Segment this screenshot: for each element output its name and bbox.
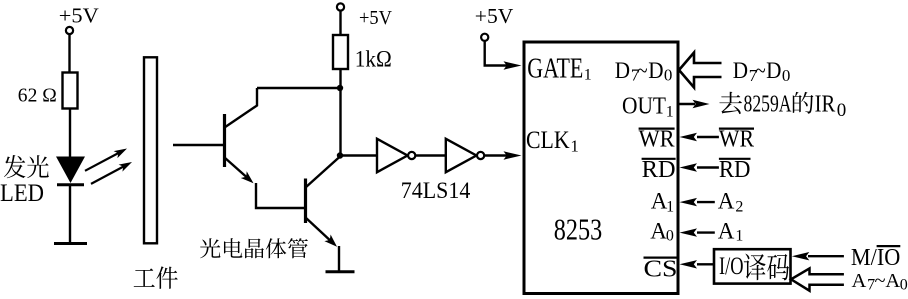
svg-text:CS: CS [644, 257, 678, 283]
svg-text:A: A [718, 189, 735, 214]
bus label A7~A0 [852, 270, 908, 293]
Q2 collector lead [306, 157, 341, 188]
wire OUT1 with arrow [679, 100, 710, 108]
inverter U1B bubble [477, 152, 484, 159]
svg-text:IR: IR [815, 91, 836, 117]
svg-text:2: 2 [735, 199, 743, 216]
ground bar (LED branch) [54, 242, 87, 245]
wire node to inverter U1A [340, 154, 377, 156]
svg-text:D: D [766, 58, 781, 83]
wire CS to decoder with arrow [680, 260, 715, 268]
ground bar (Q2 emitter) [326, 270, 355, 273]
signal label A2 [718, 189, 744, 216]
junction node (collector/inverter) [337, 152, 343, 158]
svg-text:D: D [648, 58, 663, 83]
svg-text:+5V: +5V [359, 7, 393, 29]
svg-text:WR: WR [719, 127, 754, 153]
power +5V label (1k branch) [359, 7, 393, 29]
Q1 collector lead [225, 88, 258, 128]
svg-text:1: 1 [666, 199, 674, 216]
pin label A1 (inside) [651, 189, 674, 216]
svg-text:A: A [885, 270, 900, 292]
pin label WR (inside, overline) [639, 127, 675, 153]
signal label RD (overline) [719, 157, 751, 183]
bus label D7~D0 (external) [733, 58, 791, 85]
svg-text:A: A [650, 219, 667, 244]
value label 62 ohm [18, 85, 57, 107]
inverter U1B triangle [446, 139, 477, 172]
svg-text:RD: RD [719, 157, 751, 183]
svg-text:WR: WR [639, 127, 675, 153]
svg-text:+5V: +5V [475, 4, 514, 28]
svg-text:A: A [718, 219, 735, 244]
wire U1A to U1B [415, 154, 445, 156]
wire A1-A2 with arrow [680, 198, 715, 206]
data bus block arrow into D7~D0 [679, 53, 722, 88]
pin label OUT1 [622, 94, 674, 121]
IC U1 8253 body [524, 42, 678, 294]
svg-text:1: 1 [570, 137, 579, 156]
+5V terminal circle (LED branch) [66, 27, 73, 34]
pin label A0 (inside) [650, 219, 674, 245]
label 工件 [134, 266, 178, 288]
svg-text:62 Ω: 62 Ω [18, 85, 57, 107]
phototransistor Q1 base bar [223, 114, 226, 167]
+5V terminal circle (GATE branch) [481, 34, 488, 41]
light emission arrow 1 [85, 149, 127, 171]
svg-text:OUT: OUT [622, 94, 666, 120]
wire M/IO with arrow [792, 252, 844, 260]
label 去8259A的IR0 [719, 91, 846, 121]
svg-text:D: D [615, 58, 630, 83]
resistor R1 62ohm body [63, 73, 78, 109]
svg-text:~: ~ [637, 58, 647, 83]
wire U1B to CLK1 with arrow [484, 151, 521, 159]
chip name 8253 [554, 213, 602, 247]
label I/O译码 [719, 253, 789, 281]
phototransistor Q1 base lead [173, 144, 225, 146]
wire A0-A1 with arrow [680, 228, 715, 236]
svg-text:CLK: CLK [526, 127, 570, 154]
+5V terminal circle (1k branch) [337, 3, 344, 10]
svg-text:8253: 8253 [554, 213, 602, 247]
pin label CLK1 [526, 127, 579, 156]
wire Q2 emitter to ground [338, 246, 340, 271]
svg-text:0: 0 [900, 276, 908, 293]
label 74LS14 [401, 178, 471, 203]
svg-text:LED: LED [0, 180, 44, 207]
svg-text:I/O: I/O [719, 253, 744, 280]
svg-text:+5V: +5V [59, 4, 99, 28]
svg-text:M/IO: M/IO [851, 245, 900, 271]
svg-text:GATE: GATE [527, 53, 583, 85]
svg-text:RD: RD [642, 157, 676, 183]
wire terminal to R2 [339, 11, 341, 36]
light emission arrow 2 [91, 162, 132, 184]
wire R1 to LED anode [69, 109, 71, 158]
wire terminal to R1 [68, 34, 70, 73]
wire RD with arrow [680, 163, 719, 171]
power +5V label (GATE branch) [475, 4, 514, 28]
svg-text:0: 0 [666, 228, 674, 245]
svg-text:74LS14: 74LS14 [401, 178, 471, 203]
svg-text:1: 1 [584, 66, 592, 83]
svg-text:1kΩ: 1kΩ [355, 46, 392, 71]
svg-text:0: 0 [837, 100, 847, 121]
address bus block arrow A7~A0 into decoder [791, 268, 844, 290]
transistor Q2 base bar [304, 179, 307, 224]
svg-text:D: D [733, 58, 748, 83]
svg-text:0: 0 [782, 66, 791, 85]
pin label GATE1 [527, 53, 592, 85]
svg-text:A: A [852, 270, 867, 292]
junction node (top wire) [337, 85, 343, 91]
Q2 emitter lead with arrow [306, 218, 338, 247]
value label 1k ohm [355, 46, 392, 71]
pin label CS (inside, overline) [644, 257, 679, 283]
wire R2 down to collector node [339, 69, 341, 157]
wire WR with arrow [680, 133, 719, 141]
signal label A1 (external) [718, 219, 744, 245]
LED D1 triangle (anode) [56, 157, 85, 184]
svg-text:~: ~ [875, 270, 886, 292]
label LED [0, 180, 44, 207]
workpiece slab 工件 [144, 57, 157, 243]
inverter U1A triangle [377, 139, 408, 172]
wire LED cathode to ground [69, 186, 71, 243]
LED cathode bar [57, 183, 84, 186]
power +5V label (LED branch) [59, 4, 99, 28]
Q1 emitter lead with arrow [225, 158, 254, 184]
label 光电晶体管 [200, 238, 308, 258]
signal label M/IO (overline on IO) [851, 245, 900, 271]
wire terminal to GATE1 with arrow [485, 41, 522, 70]
svg-text:1: 1 [735, 228, 743, 245]
pin label D7~D0 (inside) [615, 58, 673, 84]
inverter U1A bubble [408, 152, 415, 159]
label 发光 [4, 155, 49, 178]
svg-text:8259A: 8259A [744, 91, 792, 117]
svg-text:0: 0 [664, 65, 673, 84]
resistor R2 1k body [333, 35, 348, 69]
signal label WR (overline) [719, 127, 754, 153]
svg-text:1: 1 [666, 104, 674, 121]
wire Q1 collector to R2 node [257, 87, 340, 89]
pin label RD (inside, overline) [642, 157, 676, 183]
wire Q1 emitter to Q2 base [256, 183, 306, 208]
svg-text:~: ~ [755, 58, 765, 83]
I/O decoder box [714, 249, 791, 283]
